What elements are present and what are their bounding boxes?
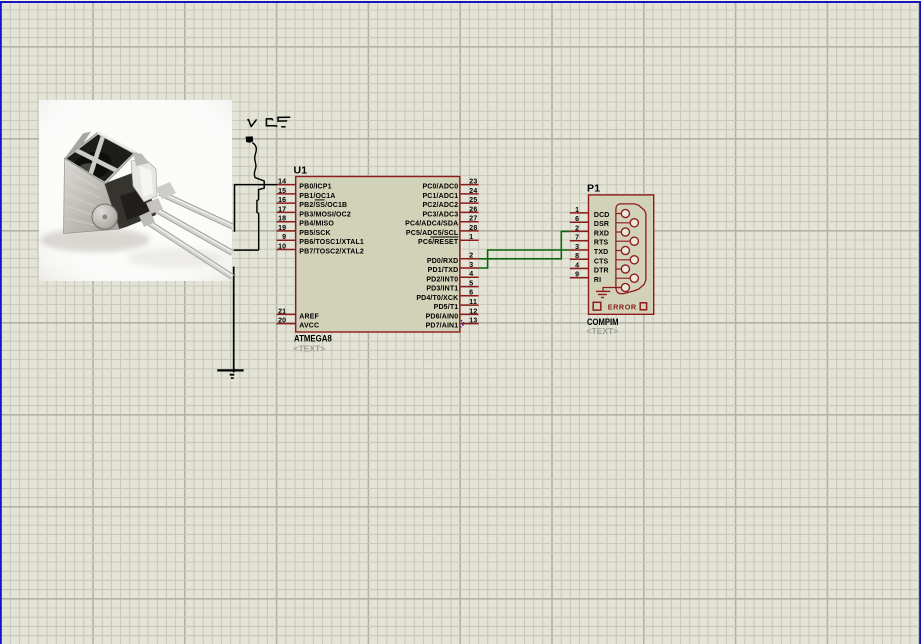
svg-text:4: 4: [469, 271, 473, 278]
svg-text:1: 1: [575, 207, 579, 214]
svg-text:21: 21: [278, 308, 286, 315]
svg-text:19: 19: [278, 225, 286, 232]
svg-text:PD5/T1: PD5/T1: [434, 304, 459, 311]
svg-text:PB1/OC1A: PB1/OC1A: [299, 193, 335, 200]
svg-text:23: 23: [469, 179, 477, 186]
svg-text:8: 8: [575, 253, 579, 260]
svg-text:U1: U1: [294, 165, 308, 177]
svg-text:27: 27: [469, 216, 477, 223]
svg-text:12: 12: [469, 308, 477, 315]
svg-text:6: 6: [575, 216, 579, 223]
svg-text:TXD: TXD: [594, 249, 608, 256]
svg-text:5: 5: [469, 280, 473, 287]
svg-text:10: 10: [278, 243, 286, 250]
svg-text:26: 26: [469, 206, 477, 213]
svg-text:3: 3: [469, 262, 473, 269]
svg-text:PB6/TOSC1/XTAL1: PB6/TOSC1/XTAL1: [299, 239, 364, 246]
svg-text:18: 18: [278, 216, 286, 223]
svg-text:6: 6: [469, 290, 473, 297]
svg-text:4: 4: [575, 262, 579, 269]
svg-text:2: 2: [575, 225, 579, 232]
svg-text:PC0/ADC0: PC0/ADC0: [422, 184, 458, 191]
svg-text:14: 14: [278, 179, 286, 186]
svg-text:PB5/SCK: PB5/SCK: [299, 230, 330, 237]
svg-text:PD6/AIN0: PD6/AIN0: [426, 313, 459, 320]
svg-text:PC5/ADC5/SCL: PC5/ADC5/SCL: [406, 230, 459, 237]
svg-text:PD0/RXD: PD0/RXD: [427, 258, 458, 265]
svg-text:PC2/ADC2: PC2/ADC2: [422, 202, 458, 209]
svg-text:DCD: DCD: [594, 212, 610, 219]
svg-text:RTS: RTS: [594, 240, 609, 247]
svg-text:13: 13: [469, 318, 477, 325]
svg-text:PB2/SS/OC1B: PB2/SS/OC1B: [299, 202, 347, 209]
svg-text:25: 25: [469, 197, 477, 204]
svg-text:PD2/INT0: PD2/INT0: [426, 276, 458, 283]
svg-text:PB4/MISO: PB4/MISO: [299, 221, 334, 228]
svg-text:24: 24: [469, 188, 477, 195]
svg-text:28: 28: [469, 225, 477, 232]
svg-text:1: 1: [469, 234, 473, 241]
svg-text:15: 15: [278, 188, 286, 195]
svg-text:PD4/T0/XCK: PD4/T0/XCK: [416, 295, 458, 302]
svg-text:<TEXT>: <TEXT>: [587, 326, 619, 336]
svg-text:PC4/ADC4/SDA: PC4/ADC4/SDA: [405, 221, 458, 228]
svg-text:AVCC: AVCC: [299, 323, 319, 330]
svg-text:11: 11: [469, 299, 477, 306]
svg-text:DTR: DTR: [594, 268, 609, 275]
svg-text:PC3/ADC3: PC3/ADC3: [422, 211, 458, 218]
svg-text:RI: RI: [594, 277, 601, 284]
svg-text:PB3/MOSI/OC2: PB3/MOSI/OC2: [299, 211, 351, 218]
svg-text:CTS: CTS: [594, 258, 609, 265]
svg-text:RXD: RXD: [594, 230, 609, 237]
svg-text:7: 7: [575, 235, 579, 242]
svg-text:17: 17: [278, 206, 286, 213]
svg-text:PD7/AIN1: PD7/AIN1: [426, 323, 459, 330]
svg-text:3: 3: [575, 244, 579, 251]
svg-text:9: 9: [575, 272, 579, 279]
svg-text:PC6/RESET: PC6/RESET: [418, 239, 459, 246]
svg-text:PD3/INT1: PD3/INT1: [426, 286, 458, 293]
svg-text:ERROR: ERROR: [608, 302, 637, 311]
svg-text:PB0/ICP1: PB0/ICP1: [299, 184, 331, 191]
svg-text:<TEXT>: <TEXT>: [294, 344, 326, 354]
svg-text:16: 16: [278, 197, 286, 204]
svg-text:AREF: AREF: [299, 313, 319, 320]
svg-text:9: 9: [282, 234, 286, 241]
svg-text:PC1/ADC1: PC1/ADC1: [422, 193, 458, 200]
svg-text:PB7/TOSC2/XTAL2: PB7/TOSC2/XTAL2: [299, 248, 364, 255]
svg-text:20: 20: [278, 318, 286, 325]
svg-text:2: 2: [469, 253, 473, 260]
svg-text:P1: P1: [587, 183, 600, 195]
svg-text:DSR: DSR: [594, 221, 609, 228]
svg-text:PD1/TXD: PD1/TXD: [428, 267, 459, 274]
